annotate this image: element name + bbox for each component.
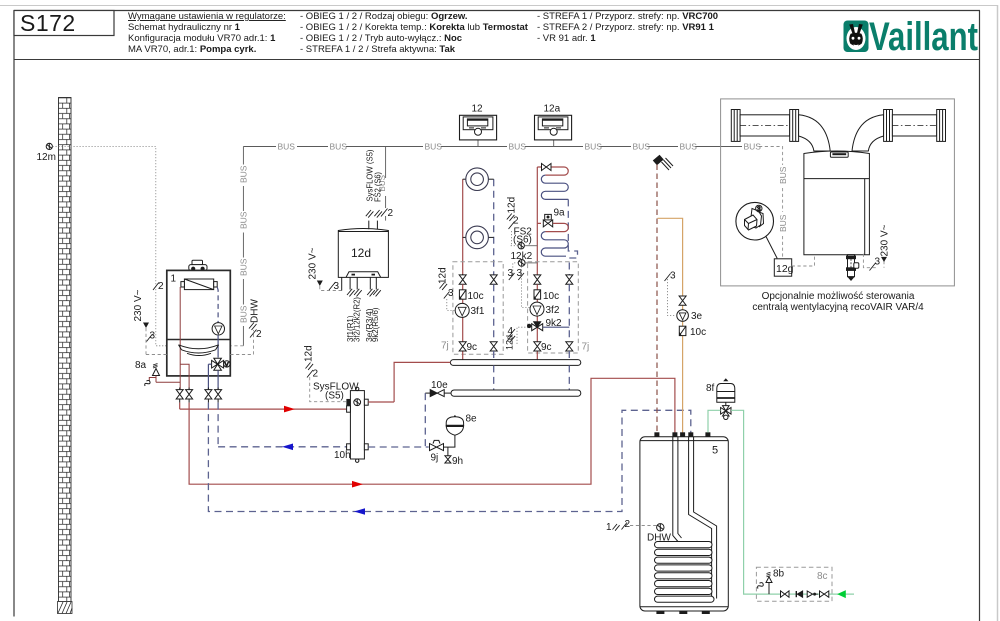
page border left <box>13 11 15 617</box>
condensate siphon <box>847 255 859 281</box>
separator flow out to manifold <box>368 401 394 403</box>
unit display <box>830 152 848 157</box>
page border right <box>979 11 981 621</box>
svg-text:BUS: BUS <box>778 214 788 232</box>
right elbow <box>852 115 884 151</box>
svg-text:BUS: BUS <box>509 142 527 152</box>
svg-text:Vaillant: Vaillant <box>869 15 978 59</box>
wire 12g to unit <box>792 255 815 266</box>
circuit 1 return valve 9c <box>490 342 497 351</box>
DHW return pipe cylinder to boiler <box>208 403 690 512</box>
SEC-WALL <box>37 98 167 614</box>
pipe boiler flow to separator <box>179 403 181 410</box>
circuit 1 return valve top <box>490 275 497 284</box>
svg-text:- STREFA 1 / 2 / Strefa aktywn: - STREFA 1 / 2 / Strefa aktywna: Tak <box>300 44 456 55</box>
svg-text:9h: 9h <box>452 456 463 467</box>
valve 10e <box>425 380 451 447</box>
controller 12 (VRC700) <box>460 115 497 140</box>
boiler 1 body <box>167 270 231 376</box>
svg-text:MA VR70, adr.1: Pompa cyrk.: MA VR70, adr.1: Pompa cyrk. <box>128 44 256 55</box>
safety group valve under 8f <box>721 406 731 420</box>
heat exchanger <box>181 279 217 290</box>
svg-text:12d: 12d <box>438 267 449 284</box>
svg-text:1: 1 <box>606 522 612 533</box>
module 230V supply <box>308 247 342 292</box>
svg-text:- OBIEG 1 / 2 / Rodzaj obiegu:: - OBIEG 1 / 2 / Rodzaj obiegu: Ogrzew. <box>300 11 468 22</box>
svg-text:BUS: BUS <box>239 258 249 276</box>
cold water arrow <box>838 591 845 597</box>
page border top <box>14 10 980 12</box>
circuit 1 flow pipe in group <box>462 284 464 342</box>
svg-text:3f2/12k2(R2): 3f2/12k2(R2) <box>353 297 362 342</box>
wire 12d to 9k2 <box>505 326 528 350</box>
svg-text:5: 5 <box>712 445 718 457</box>
svg-text:230 V~: 230 V~ <box>308 247 319 279</box>
shutoff valve below boiler (return DHW) <box>205 388 212 403</box>
circuit 1 flow valve <box>459 274 466 284</box>
circuit 2 return valve top <box>566 275 573 284</box>
svg-text:BUS: BUS <box>278 142 296 152</box>
svg-text:3: 3 <box>757 206 761 213</box>
cylinder sensor DHW <box>657 524 664 531</box>
return arrow <box>282 444 293 451</box>
circuit 2 flow pipe <box>536 167 538 275</box>
svg-text:9a: 9a <box>554 208 566 219</box>
hydraulic separator 10h <box>334 387 368 462</box>
DHW return arrow <box>354 508 365 515</box>
230V supply to recoVAIR <box>863 224 890 270</box>
pump 3f1 <box>455 303 469 317</box>
module 12g box <box>774 259 791 276</box>
check valve 10c circuit 1 <box>459 290 466 299</box>
svg-text:10c: 10c <box>543 291 559 302</box>
svg-text:centralą wentylacyjną recoVAIR: centralą wentylacyjną recoVAIR VAR/4 <box>752 302 924 313</box>
SysFLOW (S5) sensor label <box>304 345 360 401</box>
SEC-CIRCUITS <box>463 164 578 308</box>
BUS line into recoVAIR <box>759 147 783 166</box>
wire 12d to pump 3e <box>668 279 677 316</box>
svg-text:12d: 12d <box>507 197 518 214</box>
BUS drop to controller 12 <box>477 140 479 147</box>
svg-text:7j: 7j <box>582 342 590 353</box>
shutoff valve below boiler (flow DHW) <box>186 388 193 403</box>
svg-text:V: V <box>225 363 229 369</box>
recoVAIR outer box <box>721 99 955 286</box>
svg-text:- OBIEG 1 / 2 / Tryb auto-wyłą: - OBIEG 1 / 2 / Tryb auto-wyłącz.: Noc <box>300 33 462 44</box>
cut marks on sensor stubs <box>366 210 382 218</box>
svg-text:12d: 12d <box>304 345 315 362</box>
pump group box circuit 2 <box>528 262 579 353</box>
floor heating zone 1 serpentine (red part) <box>537 167 568 175</box>
expansion vessel 8e <box>446 414 477 448</box>
floor heating zone 1 serpentine (return part) <box>541 175 568 199</box>
svg-text:9c: 9c <box>467 342 478 353</box>
pressure reducer <box>807 591 812 597</box>
svg-text:12m: 12m <box>37 152 56 163</box>
drain valve 9h <box>445 447 463 467</box>
svg-text:(S5): (S5) <box>325 391 344 402</box>
svg-text:BUS: BUS <box>239 165 249 183</box>
check valve 10c on circulation <box>679 326 686 335</box>
safety valve 8a <box>135 360 180 386</box>
circuit 1 return pipe <box>493 179 495 275</box>
circuit 1 bottom valve 9c <box>459 342 466 351</box>
svg-text:10h: 10h <box>334 450 351 461</box>
left duct flange A <box>731 110 740 142</box>
valve 9j <box>430 440 444 450</box>
zone 1 shutoff valve <box>542 164 552 171</box>
DHW flow arrow <box>352 481 363 488</box>
svg-text:3: 3 <box>517 268 523 279</box>
svg-text:8b: 8b <box>773 569 785 580</box>
svg-text:3: 3 <box>150 331 156 342</box>
svg-text:3: 3 <box>875 257 881 268</box>
svg-text:2: 2 <box>256 329 262 340</box>
svg-text:- STREFA 2 / Przyporz. strefy:: - STREFA 2 / Przyporz. strefy: np. VR91 … <box>537 22 715 33</box>
svg-text:230 V~: 230 V~ <box>880 224 891 256</box>
svg-text:3: 3 <box>334 281 340 292</box>
pipe 9j to vessel <box>444 446 456 448</box>
flue adapter on boiler top <box>189 260 207 270</box>
svg-text:10e: 10e <box>431 380 448 391</box>
shutoff valve 2 <box>820 591 829 597</box>
pipe pump to 3-way valve <box>217 335 219 358</box>
BUS drop to module 12d <box>385 147 387 179</box>
230V supply to boiler <box>133 289 167 354</box>
pump group box circuit 1 <box>453 262 503 354</box>
SEC-MODULE <box>308 149 389 342</box>
svg-text:2: 2 <box>625 519 631 530</box>
svg-text:12g: 12g <box>776 263 794 275</box>
right duct flange B <box>937 110 946 142</box>
9k2 bypass link to return <box>543 326 570 328</box>
svg-text:(S6): (S6) <box>513 235 532 246</box>
boiler internal flow pipe <box>179 287 181 389</box>
svg-text:7j: 7j <box>441 341 449 352</box>
return drops between manifolds <box>493 365 495 390</box>
sensor wire with cut <box>630 525 657 527</box>
left elbow <box>799 115 831 151</box>
DHW flow pipe boiler to cylinder <box>189 378 675 484</box>
svg-text:3: 3 <box>448 288 454 299</box>
circuit 1 flow pipe <box>462 179 464 275</box>
floor heating zone 2 serpentine (red part) <box>537 223 568 231</box>
recoVAIR unit body <box>804 151 870 255</box>
module bottom cable stubs <box>350 277 376 289</box>
SEC-BOILER <box>133 260 262 402</box>
burner arc <box>179 345 219 353</box>
svg-text:12d: 12d <box>351 246 371 260</box>
svg-text:FS2 (S6): FS2 (S6) <box>372 172 382 202</box>
controller 12a (VR91) <box>535 115 572 140</box>
boiler 3-way valve <box>212 358 230 370</box>
SEC-BUS <box>231 140 761 346</box>
right screen edge line <box>997 5 999 621</box>
left duct pipe <box>740 115 790 136</box>
svg-text:2: 2 <box>388 208 394 219</box>
pointer line to 12g <box>766 237 777 259</box>
shutoff valve below boiler (flow CH) <box>176 388 183 403</box>
right duct flange A <box>884 110 893 142</box>
cut marks on bottom stubs <box>347 289 381 297</box>
check valve (black) <box>797 591 802 597</box>
wall bottom hatch cap <box>58 602 73 614</box>
svg-text:Opcjonalnie możliwość sterowan: Opcjonalnie możliwość sterowania <box>762 291 915 302</box>
DHW warm water dashed pipe (shower to cylinder) <box>656 165 658 433</box>
SEC-HEADER <box>128 11 978 59</box>
svg-text:DHW: DHW <box>647 533 671 544</box>
floor heating zone 2 serpentine (return part) <box>541 232 568 257</box>
flow manifold <box>450 360 580 366</box>
boiler pump <box>212 323 224 335</box>
flow feed to manifold <box>394 362 450 402</box>
DHW expansion vessel 8f <box>706 378 735 406</box>
svg-text:12a: 12a <box>544 104 561 115</box>
cold water pipe (green) <box>708 410 721 432</box>
svg-text:10c: 10c <box>468 291 484 302</box>
svg-text:S172: S172 <box>20 10 76 36</box>
svg-text:3: 3 <box>508 268 514 279</box>
DHW sensor cut-line right of boiler <box>230 299 262 355</box>
svg-text:DHW: DHW <box>250 299 261 323</box>
internal flow pipe to coil <box>673 437 682 542</box>
pump 3e <box>677 310 689 322</box>
module VR70 12d <box>338 229 388 278</box>
radiator circle 1 <box>466 168 489 191</box>
svg-text:4: 4 <box>508 326 514 337</box>
header divider <box>14 59 980 61</box>
sensor FS2 (S6) <box>507 197 538 249</box>
svg-text:- STREFA 1 / Przyporz. strefy:: - STREFA 1 / Przyporz. strefy: np. VRC70… <box>537 11 718 22</box>
svg-text:2: 2 <box>513 216 519 227</box>
zone 1 return drop with jog <box>568 199 577 275</box>
S172 title box <box>14 11 114 36</box>
heating coil <box>655 542 715 603</box>
svg-text:10c: 10c <box>690 327 706 338</box>
circuit 1 return pipe in group <box>493 284 495 342</box>
svg-text:BUS: BUS <box>778 166 788 184</box>
cylinder feet <box>656 611 664 614</box>
svg-text:230 V~: 230 V~ <box>133 289 144 321</box>
svg-text:8c: 8c <box>817 571 828 582</box>
SEC-RECOVAIR <box>721 99 955 313</box>
wire 12d to pump 3f1 <box>438 267 456 310</box>
svg-text:2: 2 <box>313 369 319 380</box>
svg-text:9c: 9c <box>541 342 552 353</box>
right duct pipe <box>892 115 936 136</box>
SEC-SEPARATOR <box>180 345 477 467</box>
BUS vertical labels on boiler drop <box>239 165 249 323</box>
circuit 2 return valve 9c <box>566 342 573 351</box>
separator return line to 9j <box>368 446 429 448</box>
boiler internal return pipe <box>216 287 219 323</box>
svg-text:BUS: BUS <box>585 142 603 152</box>
valve arm to left return drop <box>208 363 211 365</box>
svg-text:Wymagane ustawienia w regulato: Wymagane ustawienia w regulatorze: <box>128 11 286 22</box>
svg-text:3f1: 3f1 <box>471 306 485 317</box>
outdoor sensor 12m <box>46 143 52 149</box>
circuit 2 bottom valve 9c <box>534 342 541 351</box>
connection stubs <box>654 432 659 437</box>
top screen edge line <box>0 5 997 7</box>
cable marker 2 on module BUS drop <box>381 209 388 217</box>
svg-text:3: 3 <box>670 271 676 282</box>
circuit 2 flow valve <box>534 275 541 284</box>
svg-text:8f: 8f <box>706 383 715 394</box>
svg-text:Schemat hydrauliczny nr 1: Schemat hydrauliczny nr 1 <box>128 22 241 33</box>
svg-text:9k2(R5/6): 9k2(R5/6) <box>371 307 380 342</box>
radiator circle 2 <box>466 226 489 249</box>
shower <box>654 156 674 171</box>
DHW cylinder 5 <box>606 432 728 614</box>
svg-text:Konfiguracja modułu VR70 adr.1: Konfiguracja modułu VR70 adr.1: 1 <box>128 33 276 44</box>
outdoor sensor wire to boiler <box>53 146 167 345</box>
SEC-CONTROLLERS <box>460 104 572 140</box>
svg-text:BUS: BUS <box>633 142 651 152</box>
svg-text:2: 2 <box>158 281 164 292</box>
svg-text:BUS: BUS <box>680 142 698 152</box>
pipe boiler return from separator <box>217 403 219 447</box>
return manifold <box>451 390 581 396</box>
BUS text labels on trunk <box>278 142 762 152</box>
module top sensor stubs <box>369 221 378 230</box>
green line through group <box>756 593 780 595</box>
circulation pipe with pump 3e <box>658 218 707 432</box>
shutoff valve below boiler (return CH) <box>215 388 222 403</box>
sensor 12k2 <box>508 251 538 308</box>
left duct flange B <box>790 110 799 142</box>
Vaillant logo mark <box>844 21 869 53</box>
svg-text:BUS: BUS <box>744 142 762 152</box>
svg-text:- VR 91 adr. 1: - VR 91 adr. 1 <box>537 33 596 44</box>
pump 3f2 <box>530 302 544 316</box>
svg-text:8a: 8a <box>135 360 147 371</box>
cold water inlet group 8c <box>756 567 854 601</box>
svg-text:BUS: BUS <box>425 142 443 152</box>
svg-text:- OBIEG 1 / 2 / Korekta temp.:: - OBIEG 1 / 2 / Korekta temp.: Korekta l… <box>300 22 529 33</box>
boiler separator line <box>167 339 231 341</box>
shutoff valve <box>781 591 790 597</box>
svg-text:3e: 3e <box>691 311 703 322</box>
BUS elbow into boiler right side <box>231 345 243 347</box>
svg-text:12d: 12d <box>505 335 515 350</box>
BUS trunk line segments <box>243 140 742 346</box>
internal return pipe <box>689 437 717 599</box>
svg-text:8e: 8e <box>466 414 478 425</box>
SEC-DHW <box>189 156 854 615</box>
valve on circulation <box>679 296 686 305</box>
check valve 10c circuit 2 <box>534 290 541 299</box>
BUS drop to controller 12a <box>553 140 555 147</box>
svg-text:9j: 9j <box>431 453 439 464</box>
svg-text:12: 12 <box>472 104 484 115</box>
module terminal cover <box>346 272 381 278</box>
mixing valve 9k2 <box>528 322 543 331</box>
cable marker 2 on sensor wire <box>153 283 159 291</box>
flow arrow <box>284 406 295 413</box>
svg-text:BUS: BUS <box>330 142 348 152</box>
zone valve 9a <box>543 214 552 227</box>
radiator ticks <box>463 179 494 237</box>
svg-text:3f2: 3f2 <box>546 305 560 316</box>
connector detail circle <box>736 202 774 240</box>
svg-text:BUS: BUS <box>239 305 249 323</box>
svg-text:BUS: BUS <box>239 211 249 229</box>
SEC-PUMPGROUPS <box>394 262 589 447</box>
svg-text:1: 1 <box>171 274 177 285</box>
